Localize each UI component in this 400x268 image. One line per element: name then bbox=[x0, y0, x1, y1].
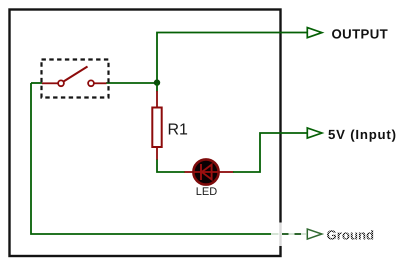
wire bbox=[106, 82, 157, 84]
wire bbox=[156, 83, 158, 92]
resistor R1 bbox=[152, 91, 188, 160]
wire faded to ground port bbox=[270, 233, 306, 235]
fading overlay on ground region bbox=[278, 223, 376, 247]
svg-text:LED: LED bbox=[196, 186, 217, 198]
switch bbox=[42, 60, 109, 98]
port Ground bbox=[307, 228, 374, 243]
wire bbox=[157, 160, 185, 173]
node junction bbox=[154, 79, 160, 85]
port 5V (Input) bbox=[307, 127, 397, 142]
wire bbox=[31, 83, 271, 234]
svg-text:R1: R1 bbox=[168, 122, 189, 139]
svg-text:OUTPUT: OUTPUT bbox=[332, 27, 389, 42]
wire bbox=[233, 133, 307, 172]
wire bbox=[157, 33, 307, 84]
LED bbox=[185, 159, 234, 198]
svg-text:5V (Input): 5V (Input) bbox=[328, 127, 397, 142]
wire bbox=[31, 82, 42, 84]
port OUTPUT bbox=[307, 27, 388, 42]
